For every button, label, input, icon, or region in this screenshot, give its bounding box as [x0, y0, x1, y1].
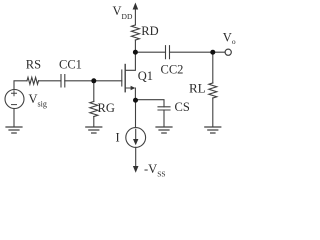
svg-text:RD: RD — [141, 24, 158, 38]
wire RL to ground — [212, 98, 214, 127]
ground under CS — [156, 127, 172, 133]
wire gate node down to RG — [93, 81, 95, 102]
wire RS to CC1 — [39, 80, 62, 82]
wire output node down to RL — [212, 52, 214, 83]
node gate junction dot — [91, 78, 96, 83]
transistor Q1 drain lead — [125, 52, 135, 70]
node output junction dot — [210, 50, 215, 55]
wire CC2 to output terminal — [170, 51, 226, 53]
wire CS to ground — [163, 110, 165, 127]
svg-text:CC1: CC1 — [59, 58, 82, 72]
svg-text:I: I — [116, 131, 120, 145]
arrowhead transistor source (NMOS) — [131, 86, 136, 90]
capacitor CC2 — [166, 46, 170, 59]
svg-text:CC2: CC2 — [161, 63, 184, 77]
wire source node to current source — [135, 100, 137, 127]
svg-text:Q1: Q1 — [138, 69, 153, 83]
V_sig minus sign — [12, 104, 17, 106]
transistor Q1 source lead — [125, 88, 135, 100]
arrowhead -VSS — [133, 166, 139, 173]
node source junction dot — [133, 98, 138, 103]
wire V_sig to ground — [13, 109, 15, 127]
arrowhead current source internal — [133, 139, 138, 145]
voltage source V_sig circle — [5, 90, 24, 109]
wire CC1 to gate bar — [65, 80, 122, 82]
wire drain node to CC2 — [135, 51, 165, 53]
resistor RD — [131, 25, 139, 40]
resistor RG — [90, 102, 98, 117]
capacitor CS — [158, 107, 170, 110]
svg-text:RG: RG — [98, 101, 115, 115]
resistor RS — [27, 77, 39, 84]
wire RG to ground — [93, 117, 95, 127]
transistor Q1 channel bar — [124, 65, 126, 92]
arrowhead V_DD — [133, 3, 139, 10]
terminal V_o circle — [225, 49, 231, 55]
ground under RL — [205, 127, 221, 133]
current source I internal arrow shaft — [135, 130, 137, 141]
wire current source to -VSS arrow — [135, 147, 137, 167]
ground under V_sig — [6, 127, 22, 133]
node drain junction dot — [133, 50, 138, 55]
V_sig plus sign — [12, 91, 17, 96]
svg-text:RS: RS — [26, 58, 41, 72]
current source I circle — [126, 128, 146, 148]
svg-text:CS: CS — [175, 100, 190, 114]
resistor RL — [209, 83, 217, 98]
wire V_DD arrow shaft — [134, 8, 136, 25]
wire input row left: corner to RS — [14, 81, 27, 90]
wire RD to drain node — [134, 40, 136, 52]
wire source node to CS — [135, 100, 164, 107]
capacitor CC1 — [61, 75, 65, 88]
svg-text:RL: RL — [189, 81, 206, 96]
transistor Q1 gate bar — [121, 70, 123, 86]
ground under RG — [86, 127, 102, 133]
